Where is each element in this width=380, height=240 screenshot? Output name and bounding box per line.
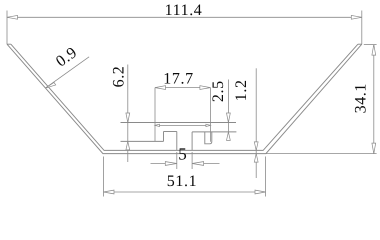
svg-text:5: 5	[178, 144, 187, 163]
svg-text:0.9: 0.9	[53, 44, 81, 71]
dim 17.7 right extension line	[209, 88, 211, 142]
dim 51.1 left arrow	[104, 190, 115, 194]
dim 51.1 right arrow	[255, 190, 266, 194]
svg-text:1.2: 1.2	[233, 79, 250, 101]
dim 17.7 left extension line	[154, 88, 156, 142]
dim 5 line right part	[192, 163, 219, 165]
dim 6.2 bottom arrow	[126, 141, 130, 150]
dim 1.2 top arrow	[254, 142, 258, 151]
left tooth left edge	[163, 132, 165, 142]
bump top line	[121, 122, 237, 124]
pocket U	[205, 132, 212, 144]
dim 111.4 left arrow	[7, 15, 18, 19]
leader 0.9 arrow	[45, 82, 56, 88]
sheet end cap top-left	[7, 43, 11, 45]
dim 51.1 left extension line	[103, 157, 105, 197]
dim 1.2 bottom arrow	[254, 154, 258, 163]
dim 111.4 right arrow	[351, 15, 362, 19]
dim 34.1 top arrow	[372, 45, 376, 56]
dim 6.2 line	[127, 65, 129, 163]
dim 111.4 right extension line	[361, 11, 363, 45]
slot left edge	[176, 132, 178, 151]
dim 5 right extension line	[191, 152, 193, 169]
dim 17.7 upper line	[155, 87, 210, 89]
right ledge line	[192, 131, 236, 133]
sheet end cap top-right	[358, 43, 362, 45]
dim 34.1 bottom arrow	[372, 143, 376, 154]
profile inner outline	[11, 44, 358, 150]
slot right edge	[191, 132, 193, 151]
left tooth top	[164, 131, 177, 133]
dim 5 right arrow	[192, 162, 204, 166]
svg-text:34.1: 34.1	[353, 83, 370, 113]
svg-text:111.4: 111.4	[165, 2, 203, 19]
dim 2.5 top arrow	[227, 113, 231, 123]
dim 5 line left part	[151, 163, 177, 165]
dim 51.1 right extension line	[265, 157, 267, 197]
leader 0.9 line	[45, 57, 89, 88]
dim 34.1 line	[373, 45, 375, 154]
left ledge line	[121, 140, 164, 142]
dim 2.5 line	[227, 80, 229, 141]
dim 51.1 line	[104, 191, 266, 193]
dim 1.2 line	[255, 68, 257, 178]
dim 2.5 bottom arrow	[227, 132, 231, 141]
svg-text:17.7: 17.7	[163, 71, 193, 88]
dim 5 left arrow	[165, 162, 177, 166]
svg-text:2.5: 2.5	[210, 80, 227, 102]
profile outer outline	[7, 44, 362, 153]
dim 34.1 top extension line	[364, 44, 377, 46]
dim 34.1 bottom extension line	[266, 153, 377, 155]
svg-text:6.2: 6.2	[111, 66, 128, 88]
dim 17.7 upper right arrow	[200, 86, 211, 90]
dim 6.2 top arrow	[126, 113, 130, 123]
dim 17.7 lower right arrow	[206, 124, 211, 126]
svg-text:51.1: 51.1	[167, 173, 197, 190]
dim 17.7 lower left arrow	[155, 124, 160, 126]
dim 111.4 left extension line	[6, 11, 8, 45]
dim 5 left extension line	[176, 152, 178, 169]
dim 17.7 upper left arrow	[155, 86, 166, 90]
dim 17.7 lower line	[155, 124, 210, 126]
dim 111.4 line	[7, 16, 362, 18]
